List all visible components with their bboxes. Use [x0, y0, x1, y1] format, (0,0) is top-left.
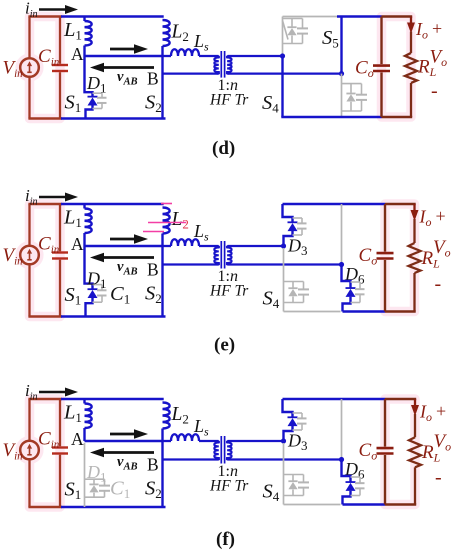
- svg-text:(e): (e): [214, 335, 235, 356]
- svg-text:Vo: Vo: [430, 46, 448, 69]
- wire input left branch (f): [28, 399, 30, 441]
- wire Cin branch (f): [59, 399, 61, 446]
- diode D1 (d): [85, 56, 93, 96]
- capacitor Co (e): [384, 204, 386, 252]
- wire secondary bottom rail gray (f): [284, 504, 341, 506]
- svg-text:L1: L1: [63, 19, 82, 43]
- svg-text:S4: S4: [263, 481, 280, 505]
- capacitor Cin (e): [52, 251, 68, 253]
- svg-text:Co: Co: [359, 440, 378, 463]
- diode D1 (e): [85, 246, 93, 289]
- highlight halo input loop (e): [30, 204, 61, 317]
- svg-text:+: +: [436, 206, 446, 226]
- inductor L2 (e): [163, 208, 170, 234]
- switch S4 on - wire (d): [281, 56, 283, 117]
- svg-text:Ls: Ls: [193, 416, 209, 439]
- svg-text:B: B: [147, 455, 159, 475]
- wire secondary top lead (f): [228, 440, 283, 442]
- switch S1 leg gray (f): [84, 443, 86, 507]
- wire output bottom rail (e): [385, 310, 416, 312]
- capacitor Co (d): [380, 17, 382, 65]
- wire B row (d): [163, 72, 219, 74]
- arrow i_in (f): [39, 391, 68, 394]
- svg-text:Co: Co: [355, 57, 374, 80]
- wire A row (d): [85, 55, 163, 57]
- svg-text:A: A: [71, 44, 84, 64]
- transformer HF Tr (e): [220, 241, 222, 269]
- switch S5 on - wire (d): [337, 15, 382, 18]
- transformer HF Tr (d): [220, 51, 222, 78]
- wire primary top rail (f): [61, 398, 164, 401]
- capacitor Cin (f): [52, 446, 68, 448]
- svg-text:iin: iin: [25, 186, 38, 208]
- arrow current AB (e): [110, 238, 137, 241]
- node D3 (e): [281, 243, 286, 248]
- capacitor Cin (d): [52, 64, 68, 66]
- inductor L2 (d): [163, 20, 170, 46]
- svg-text:D6: D6: [344, 459, 365, 482]
- highlight halo output loop (f): [385, 399, 415, 505]
- svg-text:Io: Io: [419, 402, 432, 425]
- svg-text:D1: D1: [86, 73, 107, 96]
- wire A row (f): [85, 440, 163, 442]
- wire primary bottom rail (d): [61, 117, 166, 120]
- svg-text:L1: L1: [63, 207, 82, 231]
- svg-text:S5: S5: [322, 27, 339, 51]
- inductor Ls (f): [163, 440, 172, 442]
- svg-text:(d): (d): [212, 138, 235, 159]
- wire secondary top rail (e): [283, 203, 386, 206]
- diode D6 (f): [342, 460, 351, 482]
- resistor RL (d): [410, 32, 412, 53]
- wire Cin branch (e): [59, 204, 61, 251]
- wire output top rail (e): [385, 203, 416, 205]
- highlight halo output loop (e): [385, 204, 415, 312]
- inductor Ls (d): [163, 55, 172, 57]
- svg-text:D1: D1: [86, 269, 107, 292]
- switch S4 gray (f): [283, 443, 285, 505]
- wire output top rail (f): [385, 398, 416, 400]
- svg-text:L2: L2: [171, 209, 189, 232]
- voltage source Vin (e): [20, 246, 39, 265]
- arrow i_in (e): [39, 196, 68, 199]
- svg-text:L2: L2: [171, 22, 189, 45]
- svg-text:D6: D6: [344, 264, 365, 287]
- arrow current AB (d): [110, 48, 137, 51]
- svg-text:vAB: vAB: [117, 69, 138, 88]
- arrow current AB (f): [110, 433, 137, 436]
- svg-text:HF Tr: HF Tr: [209, 92, 249, 109]
- svg-text:Vo: Vo: [433, 237, 451, 260]
- switch S5 leg gray (f): [341, 399, 343, 460]
- svg-text:S1: S1: [65, 284, 82, 308]
- highlight halo input loop (d): [30, 17, 61, 119]
- svg-text:HF Tr: HF Tr: [209, 478, 249, 495]
- node D6 (e): [339, 262, 344, 267]
- inductor L2 (f): [163, 403, 170, 429]
- svg-text:vAB: vAB: [117, 259, 138, 278]
- wire secondary bottom rail (f): [343, 503, 386, 506]
- switch S5 leg gray (e): [341, 204, 343, 265]
- node D3 (f): [281, 438, 286, 443]
- wire input bottom rail red (f): [28, 506, 62, 508]
- wire Cin branch (d): [59, 17, 61, 64]
- wire primary bottom rail (f): [61, 506, 166, 509]
- wire input left branch (d): [28, 17, 30, 59]
- wire output bottom rail (f): [385, 503, 416, 505]
- wire secondary bottom lead (d): [228, 72, 342, 74]
- wire input top rail red (f): [28, 398, 62, 400]
- svg-text:D3: D3: [287, 236, 308, 259]
- arrow Io (e): [413, 204, 415, 213]
- svg-text:C1: C1: [110, 478, 130, 502]
- svg-text:(f): (f): [216, 529, 235, 550]
- svg-text:+: +: [436, 401, 446, 421]
- inductor L1 (e): [83, 204, 85, 209]
- inductor Ls (e): [163, 245, 172, 247]
- capacitor Co (f): [384, 399, 386, 447]
- arrow i_in (d): [39, 8, 68, 11]
- svg-text:S2: S2: [145, 283, 162, 307]
- svg-text:-: -: [435, 466, 442, 488]
- wire secondary bottom lead (f): [228, 458, 342, 460]
- wire primary bottom rail (e): [61, 315, 166, 318]
- arrow Io (d): [410, 17, 412, 26]
- wire secondary top lead (e): [228, 245, 283, 247]
- svg-text:-: -: [431, 80, 438, 102]
- svg-text:A: A: [71, 234, 84, 254]
- svg-text:L2: L2: [171, 404, 189, 427]
- transformer HF Tr (f): [220, 436, 222, 464]
- voltage source Vin (f): [20, 441, 39, 460]
- wire input left branch (e): [28, 204, 30, 246]
- wire primary top rail (e): [61, 203, 164, 206]
- svg-text:B: B: [147, 69, 159, 89]
- diode D3 (e): [283, 204, 293, 222]
- wire secondary top rail gray (d): [283, 16, 338, 18]
- wire S2 leg (e): [161, 234, 163, 317]
- wire S2 leg (d): [161, 46, 163, 119]
- switch S3 gray (d): [282, 17, 284, 57]
- svg-text:D1: D1: [86, 462, 107, 485]
- svg-text:S1: S1: [65, 479, 82, 503]
- diode D6 (e): [342, 265, 351, 288]
- svg-text:Vo: Vo: [434, 431, 452, 454]
- svg-text:Io: Io: [419, 207, 432, 230]
- node D6 (f): [339, 457, 344, 462]
- svg-text:S1: S1: [65, 91, 82, 115]
- wire input bottom rail red (d): [28, 117, 62, 119]
- arrow v_AB (e): [101, 256, 154, 259]
- wire input bottom rail red (e): [28, 315, 62, 317]
- svg-text:iin: iin: [25, 381, 38, 403]
- magenta annotation marks near L2 (e): [161, 203, 172, 205]
- svg-text:Ls: Ls: [193, 221, 209, 244]
- svg-text:C1: C1: [110, 283, 130, 307]
- arrow v_AB (f): [101, 451, 154, 454]
- wire B row (f): [163, 458, 219, 460]
- wire secondary bottom rail (e): [343, 310, 386, 313]
- wire input top rail red (d): [28, 15, 62, 17]
- wire primary top rail (d): [61, 15, 164, 18]
- highlight halo output loop (d): [382, 17, 412, 118]
- voltage source Vin (d): [20, 58, 39, 77]
- svg-text:S4: S4: [263, 288, 280, 312]
- wire secondary bottom lead (e): [228, 263, 342, 265]
- svg-text:vAB: vAB: [117, 454, 138, 473]
- svg-text:iin: iin: [25, 0, 38, 20]
- svg-text:-: -: [435, 273, 442, 295]
- svg-text:B: B: [147, 260, 159, 280]
- wire S2 leg (f): [161, 429, 163, 508]
- svg-text:Ls: Ls: [193, 31, 209, 54]
- svg-text:+: +: [432, 19, 442, 39]
- highlight halo input loop (f): [30, 399, 61, 507]
- svg-text:S2: S2: [145, 92, 162, 116]
- wire secondary top lead (d): [228, 55, 283, 57]
- svg-text:Io: Io: [415, 19, 428, 42]
- wire input top rail red (e): [28, 203, 62, 205]
- resistor RL (e): [413, 219, 415, 243]
- svg-text:D3: D3: [287, 431, 308, 454]
- diode D3 (f): [283, 399, 293, 417]
- arrow v_AB (d): [101, 66, 154, 69]
- wire secondary bottom rail (d): [281, 116, 381, 119]
- inductor L1 (f): [83, 399, 85, 404]
- switch S4 gray (e): [283, 248, 285, 312]
- inductor L1 (d): [83, 17, 85, 22]
- wire secondary top rail (f): [283, 398, 386, 401]
- svg-text:HF Tr: HF Tr: [209, 283, 249, 300]
- arrow Io (f): [414, 399, 416, 408]
- svg-text:A: A: [71, 429, 84, 449]
- wire A row (e): [85, 245, 163, 247]
- switch S6 gray (d): [341, 74, 343, 117]
- wire secondary bottom rail gray (e): [284, 311, 341, 313]
- node transformer-bottom junction (d): [339, 71, 344, 76]
- svg-text:S2: S2: [145, 478, 162, 502]
- wire output top rail (d): [382, 15, 413, 17]
- resistor RL (f): [414, 414, 416, 437]
- wire B row (e): [163, 263, 219, 265]
- svg-text:L1: L1: [63, 402, 82, 426]
- node transformer-top junction (d): [280, 53, 285, 58]
- wire output bottom rail (d): [382, 116, 413, 118]
- svg-text:Co: Co: [359, 245, 378, 268]
- svg-text:S4: S4: [262, 92, 279, 116]
